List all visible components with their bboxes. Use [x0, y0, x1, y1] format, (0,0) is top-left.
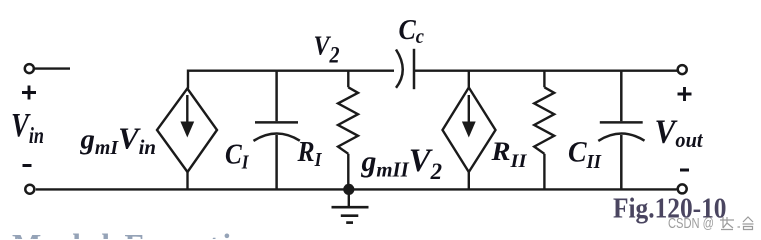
watermark CSDN: [668, 216, 714, 232]
label output plus sign: [678, 87, 692, 101]
label RII: [490, 136, 527, 172]
label input plus sign: [22, 86, 36, 100]
arrow inside U1: [180, 95, 194, 138]
current source U1 gmI*Vin diamond: [157, 89, 217, 173]
resistor R2 (R_II): [534, 70, 554, 190]
label Vout: [655, 113, 704, 152]
capacitor C2 (C_II): [598, 70, 644, 190]
wire U1 bottom stem: [186, 172, 188, 189]
wire U2 top stem: [468, 70, 470, 88]
capacitor Cc (compensation, horizontal): [396, 49, 414, 89]
resistor R1 (R_I): [338, 70, 358, 190]
arrow inside U2: [462, 95, 476, 138]
label gmI Vin: [80, 121, 156, 160]
label node V2: [314, 29, 340, 67]
cropped heading Model Equations (bottom edge): [12, 227, 290, 240]
node output top terminal: [678, 65, 687, 74]
wire top rail left segment: [188, 69, 394, 71]
label Cc: [399, 15, 425, 48]
watermark CJK glyph 1: [720, 217, 734, 230]
node input bottom terminal: [25, 185, 34, 194]
wire bottom rail: [36, 188, 677, 190]
svg-text:CSDN @: CSDN @: [668, 216, 714, 232]
label output minus sign: [680, 169, 689, 172]
current source U2 gmII*V2 diamond: [443, 88, 496, 173]
label gmII V2: [361, 143, 442, 184]
label CII: [568, 136, 602, 174]
ground: [332, 189, 369, 222]
wire top rail right segment: [414, 69, 677, 71]
wire U2 bottom stem: [468, 172, 470, 189]
junction dot at RI bottom / ground node: [343, 184, 354, 195]
label CI: [225, 139, 250, 174]
svg-text:Model Equations: Model Equations: [12, 227, 290, 239]
label input minus sign: [23, 164, 32, 167]
label figure number Fig.120-10: [613, 194, 727, 225]
capacitor C1 (C_I): [254, 70, 300, 190]
label RI: [297, 136, 323, 171]
node input top terminal: [25, 64, 34, 73]
label Vin: [11, 107, 44, 148]
node output bottom terminal: [678, 184, 687, 193]
watermark CJK glyph 2: [738, 217, 754, 230]
wire U1 top stem: [187, 70, 189, 89]
wire input stub: [35, 67, 70, 69]
